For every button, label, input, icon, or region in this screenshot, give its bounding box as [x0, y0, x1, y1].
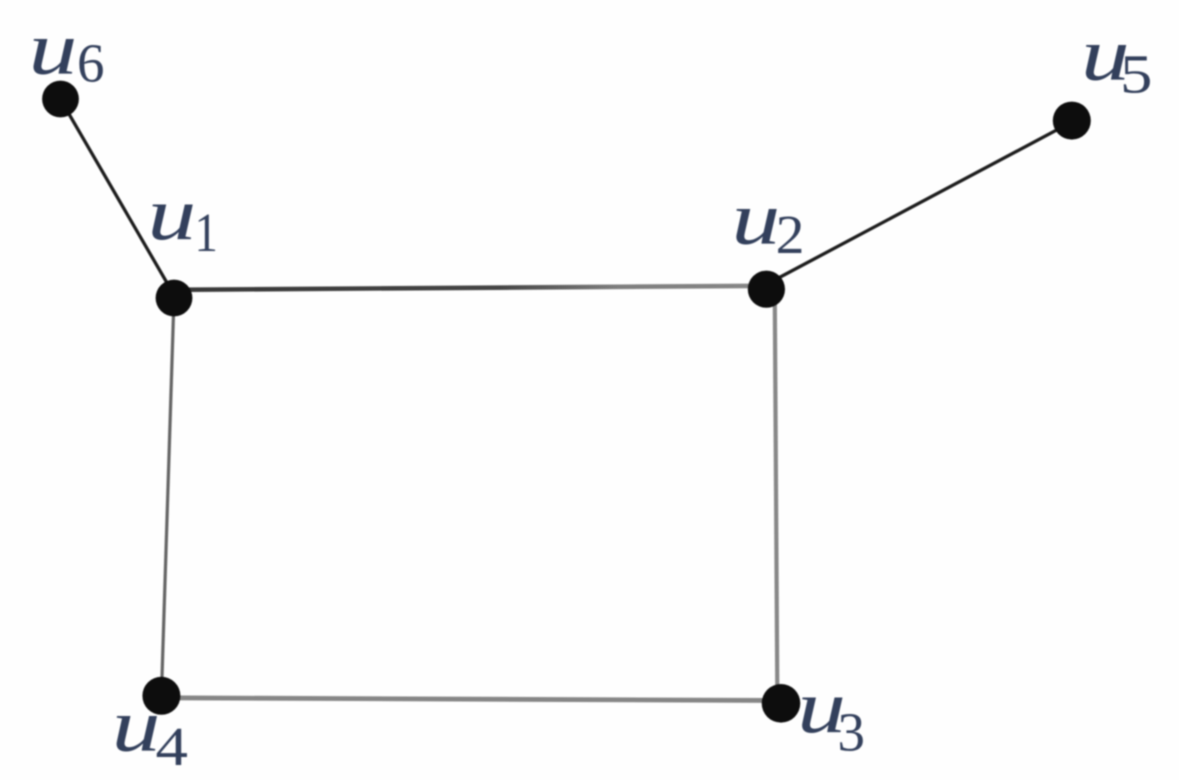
- node u3 vertex dot: [762, 684, 801, 723]
- label u2: [732, 176, 805, 266]
- node u6 vertex dot: [42, 81, 79, 118]
- wire edge u4-u3: [163, 698, 779, 701]
- wire edge u6-u1: [60, 99, 176, 298]
- node u2 vertex dot: [748, 271, 785, 308]
- wire edge u1-u4: [161, 298, 174, 696]
- node u5 vertex dot: [1053, 102, 1091, 140]
- svg-text:u: u: [112, 683, 161, 767]
- wire edge u2-u5: [769, 121, 1073, 283]
- label u5: [1081, 12, 1152, 105]
- svg-text:3: 3: [838, 702, 866, 763]
- svg-text:u: u: [148, 172, 197, 256]
- svg-text:5: 5: [1120, 44, 1152, 105]
- label u1: [148, 172, 218, 264]
- svg-text:6: 6: [77, 33, 105, 94]
- svg-text:u: u: [29, 6, 78, 90]
- svg-text:2: 2: [776, 205, 805, 265]
- node u4 vertex dot: [142, 677, 180, 715]
- node u1 vertex dot: [156, 280, 193, 317]
- label u3: [797, 665, 865, 763]
- wire edge u2-u3: [775, 300, 778, 690]
- wire edge u1-u2: [175, 286, 766, 290]
- label u6: [29, 6, 105, 93]
- svg-text:u: u: [732, 176, 781, 260]
- svg-text:1: 1: [195, 204, 218, 264]
- svg-text:4: 4: [156, 717, 188, 778]
- label u4: [112, 683, 188, 778]
